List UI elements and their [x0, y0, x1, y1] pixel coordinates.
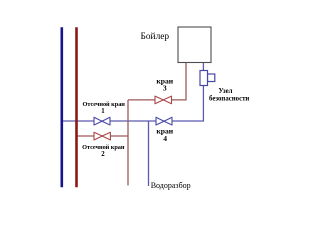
- valve 2 (red bowtie, shut-off valve 2): [94, 132, 110, 140]
- cold water pipe horizontal (blue main line y=121): [61, 120, 204, 122]
- blue riser (cold supply): [60, 27, 63, 187]
- boiler box: [178, 27, 211, 63]
- svg-text:4: 4: [163, 134, 167, 143]
- valve 4 (blue bowtie, кран 4): [156, 117, 172, 125]
- svg-text:Бойлер: Бойлер: [140, 31, 169, 42]
- valve 3 (red bowtie, кран 3): [155, 96, 172, 104]
- red riser (hot supply): [75, 27, 78, 187]
- safety unit side tab: [208, 74, 215, 82]
- hot water vertical drop pipe x=128: [127, 100, 129, 186]
- svg-text:Отсечной кран: Отсечной кран: [82, 144, 125, 151]
- valve 1 (blue bowtie, shut-off valve 1): [94, 117, 110, 125]
- svg-text:Водоразбор: Водоразбор: [151, 181, 191, 190]
- cold water pipe vertical from boiler through safety unit: [202, 63, 204, 122]
- cold water drop pipe to water draw-off: [148, 121, 150, 186]
- svg-text:безопасности: безопасности: [209, 95, 249, 102]
- svg-text:Узел: Узел: [219, 88, 233, 95]
- hot water pipe from red riser (y=136): [76, 135, 129, 137]
- safety unit body: [200, 71, 208, 86]
- hot water pipe from boiler down and left (y=100): [128, 63, 186, 100]
- svg-text:3: 3: [163, 83, 167, 92]
- svg-text:1: 1: [101, 108, 105, 115]
- svg-text:2: 2: [101, 151, 105, 158]
